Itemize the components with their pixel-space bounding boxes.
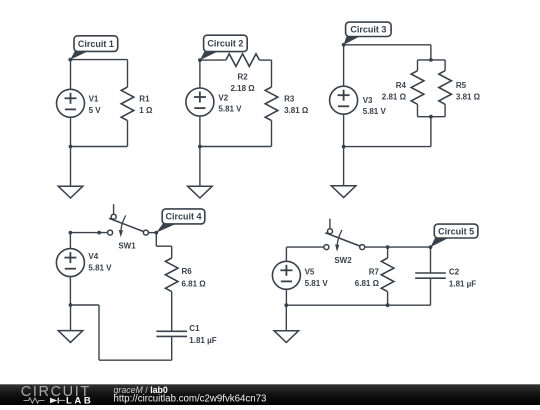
svg-text:R6: R6	[182, 267, 193, 276]
svg-text:V5: V5	[305, 267, 315, 276]
voltage source V2	[186, 88, 214, 116]
svg-text:LAB: LAB	[66, 395, 93, 405]
wire jog right	[156, 245, 171, 247]
wire V4 top lead	[69, 233, 71, 249]
svg-text:3.81 Ω: 3.81 Ω	[284, 106, 309, 115]
wire return to source	[71, 304, 100, 306]
label callout "Circuit 1"	[70, 36, 117, 60]
Circuit 5 section	[272, 219, 478, 343]
wire C2 bottom lead	[430, 278, 432, 305]
node circuit 1 bottom junction	[69, 145, 73, 149]
label R3 value	[284, 95, 309, 115]
wire jog down	[155, 233, 157, 247]
svg-text:Circuit 1: Circuit 1	[78, 39, 114, 49]
voltage source V3	[330, 86, 358, 114]
wire V3 top lead	[343, 45, 345, 86]
wire top rail circuit 3	[344, 44, 431, 46]
svg-text:SW1: SW1	[118, 241, 136, 250]
resistor R1	[121, 87, 134, 121]
ground circuit 5	[274, 331, 299, 343]
node circuit 2 bottom junction	[198, 145, 202, 149]
svg-text:R3: R3	[284, 95, 295, 104]
label C1 value	[189, 324, 216, 345]
wire R6 to C1	[171, 292, 173, 332]
node circuit 4 top left	[69, 231, 73, 235]
ground circuit 2	[188, 186, 213, 198]
wire parallel top connector	[418, 59, 446, 61]
wire top left circuit 2	[200, 59, 226, 61]
wire V4 bottom lead	[69, 277, 71, 305]
voltage source V4	[56, 249, 84, 277]
svg-text:R2: R2	[237, 72, 248, 81]
wire C2 top lead	[430, 247, 432, 273]
wire R7 top lead	[387, 247, 389, 258]
wire top left circuit 4	[70, 232, 107, 234]
label V3 value	[363, 96, 387, 116]
wire to ground circuit 3	[343, 147, 345, 186]
resistor R3	[265, 87, 278, 121]
label R1 value	[139, 95, 153, 115]
svg-text:5.81 V: 5.81 V	[88, 263, 112, 272]
label R6 value	[182, 267, 207, 288]
wire bottom rail circuit 1	[71, 146, 128, 148]
svg-text:3.81 Ω: 3.81 Ω	[456, 93, 481, 102]
footer bar	[0, 384, 540, 405]
Circuit 1 section	[57, 36, 153, 198]
svg-text:Circuit 5: Circuit 5	[438, 226, 474, 236]
wire R1 bottom lead	[127, 121, 129, 147]
svg-text:R4: R4	[396, 81, 407, 90]
wire down to parallel top	[430, 45, 432, 60]
label callout "Circuit 2"	[200, 35, 247, 60]
svg-text:Circuit 3: Circuit 3	[350, 25, 386, 35]
svg-text:V2: V2	[218, 93, 228, 102]
voltage source V1	[57, 89, 85, 117]
wire top rail circuit 1	[70, 59, 127, 61]
svg-text:1.81 µF: 1.81 µF	[449, 280, 476, 289]
label V4 value	[88, 252, 112, 272]
resistor R5	[439, 71, 452, 105]
wire V5 top lead	[285, 247, 287, 261]
wire R1 top lead	[127, 60, 129, 87]
wire R5 bottom lead	[444, 104, 446, 116]
node circuit 3 bottom junction	[342, 145, 346, 149]
switch SW2	[324, 219, 365, 252]
node R7 bottom junction	[386, 303, 390, 307]
wire R4 top lead	[417, 60, 419, 71]
node R7 top junction	[386, 245, 390, 249]
resistor R6	[165, 258, 178, 292]
svg-text:C2: C2	[449, 268, 460, 277]
svg-text:Circuit 4: Circuit 4	[165, 212, 201, 222]
label V1 value	[89, 95, 102, 115]
wire bottom rail circuit 2	[200, 146, 272, 148]
wire switch to C2 top	[365, 246, 431, 248]
node circuit 3 top	[342, 43, 346, 47]
capacitor C2	[415, 273, 446, 278]
label R7 value	[355, 267, 380, 288]
voltage source V5	[272, 261, 300, 289]
wire parallel bottom connector	[418, 116, 446, 118]
wire V1 bottom lead	[70, 117, 72, 146]
svg-text:R7: R7	[369, 267, 380, 276]
svg-text:R5: R5	[456, 81, 467, 90]
wire R3 top lead	[271, 60, 273, 87]
node C2 top	[429, 245, 433, 249]
wire C1 bottom lead	[171, 336, 173, 360]
Circuit 2 section	[186, 35, 309, 198]
wire V2 bottom lead	[199, 116, 201, 147]
node circuit 2 top	[198, 58, 202, 62]
label C2 value	[449, 268, 476, 289]
node circuit 4 switch output	[154, 231, 158, 235]
wire to ground circuit 1	[70, 147, 72, 187]
wire R6 top lead	[171, 246, 173, 258]
CircuitLab logo	[21, 384, 94, 406]
wire V3 bottom lead	[343, 114, 345, 147]
svg-text:V3: V3	[363, 96, 373, 105]
wire bottom return horizontal	[99, 359, 172, 361]
wire top right circuit 2	[259, 59, 271, 61]
wire down from parallel	[430, 117, 432, 147]
node parallel bottom junction	[429, 115, 433, 119]
wire V1 top lead	[70, 60, 72, 90]
wire switch to node	[148, 232, 156, 234]
wire R5 top lead	[444, 60, 446, 71]
svg-text:2.18 Ω: 2.18 Ω	[230, 84, 255, 93]
ground circuit 4	[58, 331, 83, 343]
wire to ground circuit 2	[199, 147, 201, 187]
wire to ground circuit 5	[285, 305, 287, 331]
svg-text:Circuit 2: Circuit 2	[207, 39, 243, 49]
svg-text:6.81 Ω: 6.81 Ω	[182, 279, 207, 288]
ground circuit 3	[331, 186, 356, 198]
node parallel top junction	[429, 58, 433, 62]
svg-text:5.81 V: 5.81 V	[218, 105, 242, 114]
wire V2 top lead	[199, 60, 201, 88]
wire to ground circuit 4	[70, 305, 72, 331]
ground circuit 1	[58, 186, 83, 198]
label callout "Circuit 3"	[344, 22, 392, 45]
wire top left circuit 5	[286, 246, 324, 248]
wire R3 bottom lead	[271, 121, 273, 147]
svg-text:5 V: 5 V	[89, 106, 102, 115]
svg-text:5.81 V: 5.81 V	[363, 107, 387, 116]
wire bottom return vertical	[98, 305, 100, 360]
wire bottom rail circuit 3	[344, 146, 431, 148]
svg-text:SW2: SW2	[334, 256, 352, 265]
label V5 value	[305, 267, 329, 288]
svg-text:V1: V1	[89, 95, 99, 104]
svg-text:1 Ω: 1 Ω	[139, 106, 153, 115]
label callout "Circuit 4"	[156, 209, 204, 233]
svg-text:2.81 Ω: 2.81 Ω	[382, 93, 407, 102]
wire V5 bottom lead	[285, 289, 287, 305]
resistor R7	[381, 258, 394, 292]
Circuit 4 section	[56, 204, 216, 360]
wire R4 bottom lead	[417, 104, 419, 116]
node circuit 1 top	[68, 58, 72, 62]
switch SW1	[108, 204, 149, 237]
label R4 value	[382, 81, 407, 102]
node switch left junction	[97, 231, 101, 235]
svg-text:6.81 Ω: 6.81 Ω	[355, 279, 380, 288]
node circuit 5 bottom junction	[284, 303, 288, 307]
svg-text:5.81 V: 5.81 V	[305, 279, 329, 288]
label R2 value	[230, 72, 255, 93]
wire bottom rail circuit 5	[286, 304, 430, 306]
label V2 value	[218, 93, 242, 113]
footer user text	[114, 385, 267, 405]
Circuit 3 section	[330, 22, 481, 198]
capacitor C1	[156, 331, 187, 336]
resistor R4	[411, 71, 424, 105]
wire R7 bottom lead	[387, 292, 389, 306]
label callout "Circuit 5"	[431, 224, 478, 247]
resistor R2	[226, 54, 260, 67]
node circuit 4 bottom junction	[69, 303, 73, 307]
svg-text:V4: V4	[88, 252, 98, 261]
label R5 value	[456, 81, 481, 102]
svg-text:http://circuitlab.com/c2w9fvk6: http://circuitlab.com/c2w9fvk64cn73	[114, 394, 267, 405]
svg-text:C1: C1	[189, 324, 200, 333]
svg-text:R1: R1	[139, 95, 150, 104]
svg-text:1.81 µF: 1.81 µF	[189, 336, 216, 345]
